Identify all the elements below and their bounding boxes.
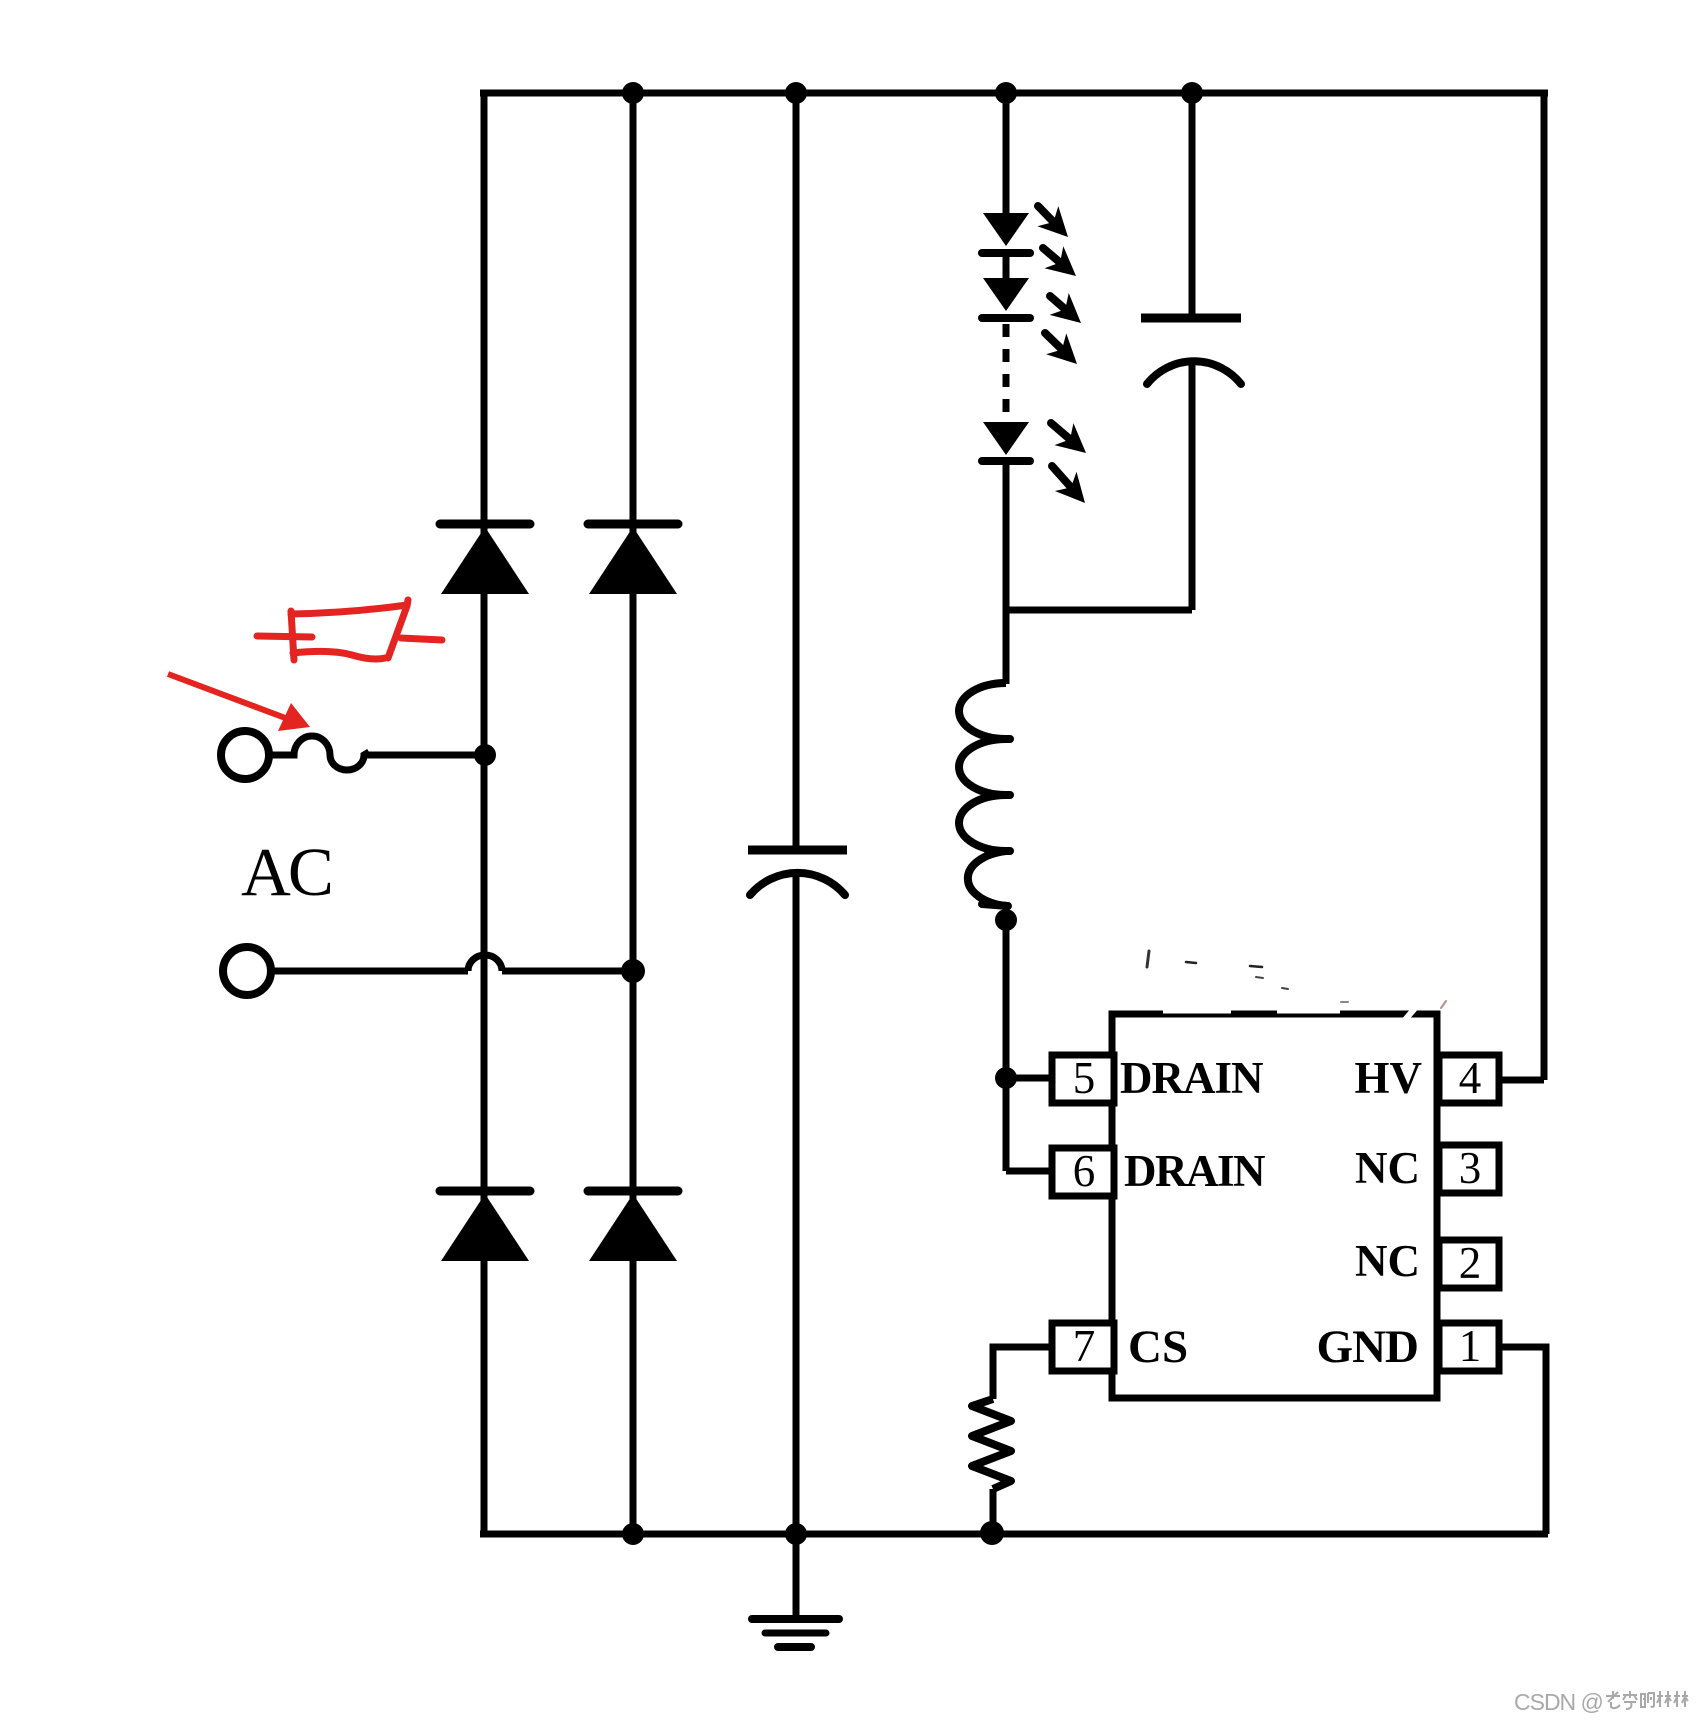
red arrow [168,674,310,731]
node bottom rail / ground [785,1523,807,1545]
wire left column (bridge left leg) [481,93,488,1534]
capacitor C1 top plate [748,846,847,855]
diode D3 [440,1191,530,1261]
capacitor C1 curved bottom plate [750,873,845,895]
pin 3 box [1439,1143,1499,1193]
svg-text:7: 7 [1073,1321,1096,1371]
wire cap C2 bottom to LED cathode node [1006,607,1192,614]
svg-text:3: 3 [1459,1143,1482,1193]
node top rail / D2 [622,82,644,104]
wire pin7 to resistor [993,1347,1054,1399]
diode D4 [588,1191,678,1261]
wire dashed (more LEDs) [1003,324,1010,419]
wire top rail [480,90,1548,97]
watermark CJK glyphs [1606,1691,1620,1708]
wire capacitor C1 column upper [793,93,800,850]
fuse F1 [269,736,369,770]
red hand-drawn fuse annotation [257,600,442,660]
svg-text:6: 6 [1073,1146,1096,1196]
svg-text:HV: HV [1355,1053,1423,1103]
wire to pin 6 [1006,1168,1054,1175]
pin 6 box [1052,1146,1114,1196]
LED light arrow 3 [1050,293,1081,323]
node neutral junction [621,959,645,983]
svg-text:NC: NC [1355,1143,1420,1193]
wire bottom rail [480,1531,1548,1538]
smudge artifacts (erased watermark) [1147,951,1446,1008]
node resistor junction [980,1521,1004,1545]
wire LED3 to inductor [1003,465,1010,684]
wire hop over left column [468,955,502,971]
svg-text:5: 5 [1073,1053,1096,1103]
capacitor C2 curved bottom plate [1147,361,1241,384]
node top rail / C1 [785,82,807,104]
wire right rail (HV) [1541,93,1548,1080]
ground symbol [752,1619,839,1647]
wire fuse to bridge [365,752,486,759]
wire to pin 5 [1006,1075,1054,1082]
svg-text:2: 2 [1459,1238,1482,1288]
node drain tap [995,1067,1017,1089]
LED light arrow 6 [1052,466,1085,503]
wire capacitor C1 column lower / ground stem [793,872,800,1619]
wire pin4 to right rail [1497,1077,1544,1084]
pin 4 box [1439,1053,1499,1103]
node inductor bottom [995,909,1017,931]
AC terminal 2 (neutral) [223,947,271,995]
wire resistor to bottom rail [990,1489,997,1534]
LED light arrow 1 [1037,206,1068,237]
svg-text:GND: GND [1317,1321,1418,1373]
capacitor C2 top plate [1141,314,1241,323]
pin 1 box [1439,1321,1499,1371]
node top rail / LED [995,82,1017,104]
wire pin1 to bottom rail [1497,1347,1546,1534]
wire capacitor C2 column upper [1189,93,1196,318]
pin 2 box [1439,1238,1499,1288]
svg-text:CSDN @: CSDN @ [1514,1689,1603,1715]
wire second column (bridge right leg) [630,93,637,1534]
svg-text:NC: NC [1355,1236,1420,1286]
inductor L1 [959,683,1010,906]
svg-text:1: 1 [1459,1321,1482,1371]
node bottom rail / D4 [622,1523,644,1545]
AC terminal 1 (live) [221,731,269,779]
LED light arrow 2 [1043,246,1076,276]
pin 7 box [1052,1321,1114,1371]
node top rail / C2 [1181,82,1203,104]
svg-text:DRAIN: DRAIN [1120,1053,1263,1103]
wire LED string top [1003,93,1010,214]
LED D6 [982,278,1030,318]
pin 5 box [1052,1053,1114,1103]
wire LED1-LED2 stub [1003,257,1010,279]
svg-text:AC: AC [241,834,331,910]
wire neutral right segment [502,968,633,975]
LED D5 [982,213,1030,253]
svg-text:DRAIN: DRAIN [1124,1146,1265,1196]
LED light arrow 4 [1045,333,1077,364]
wire capacitor C2 column lower [1189,361,1196,610]
svg-text:CS: CS [1128,1321,1188,1373]
wire inductor bottom to DRAIN pins [1003,906,1010,1171]
node fuse junction [474,744,496,766]
LED D7 [982,422,1030,461]
diode D1 [440,524,530,594]
resistor R1 [972,1399,1011,1489]
wire neutral left segment [271,968,468,975]
LED light arrow 5 [1051,423,1086,453]
op-amp / controller IC U1 body [1112,1014,1437,1398]
IC top edge erase artifacts [1398,1000,1422,1028]
svg-text:4: 4 [1459,1053,1482,1103]
diode D2 [588,524,678,594]
